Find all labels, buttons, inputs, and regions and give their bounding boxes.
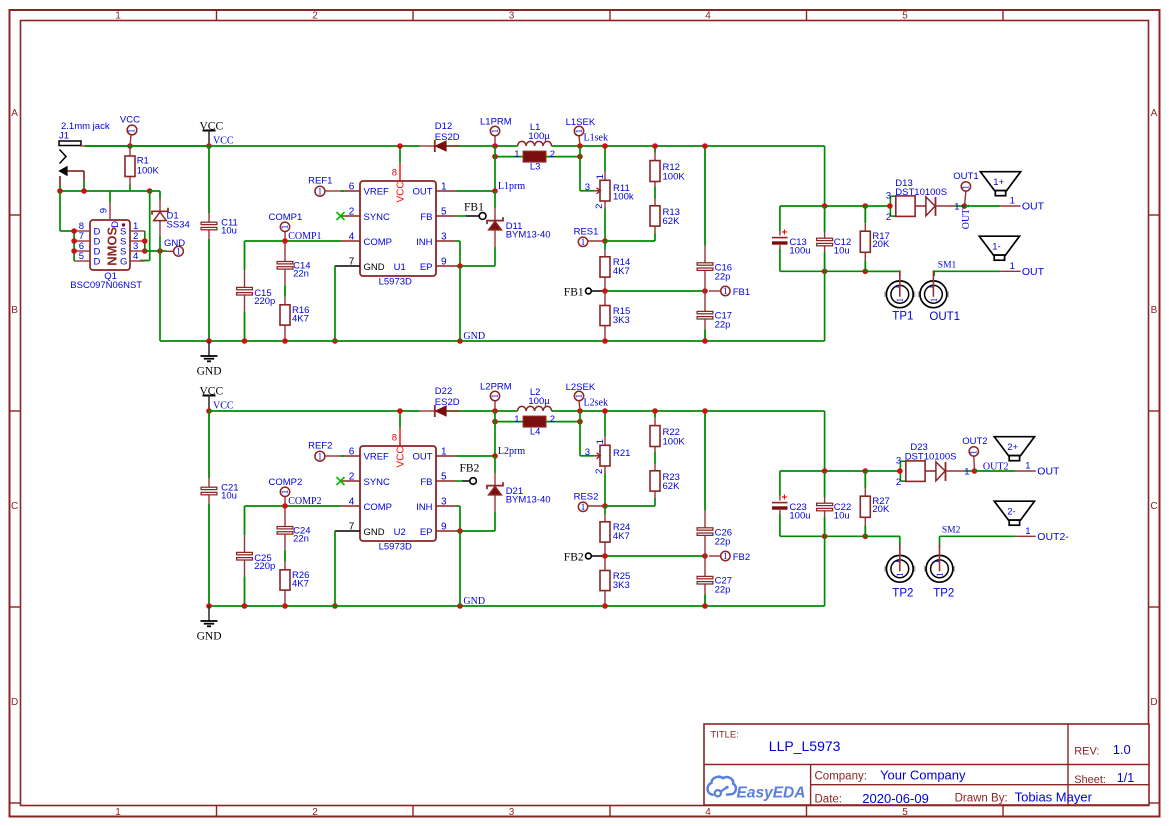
svg-text:22n: 22n [293,533,309,544]
svg-text:4K7: 4K7 [292,314,309,325]
inductor L2 [518,387,552,411]
terminal FB1 row [564,286,605,298]
svg-text:2: 2 [550,414,555,425]
svg-text:B: B [11,305,18,316]
svg-text:OUT1: OUT1 [929,311,960,323]
svg-text:2: 2 [594,469,605,474]
junction [457,338,463,344]
svg-text:1: 1 [595,174,606,179]
wire FB row [605,555,705,557]
svg-text:10u: 10u [834,245,850,256]
svg-text:1: 1 [1010,261,1015,272]
svg-text:100K: 100K [663,437,686,448]
svg-text:1: 1 [127,129,137,134]
wire EP to rail [459,266,461,341]
svg-text:62K: 62K [663,481,681,492]
svg-text:2: 2 [550,149,555,160]
svg-text:FB1: FB1 [564,286,584,298]
svg-text:4: 4 [133,251,138,262]
svg-text:FB: FB [420,212,432,223]
svg-text:1: 1 [964,466,969,477]
svg-text:VCC: VCC [395,446,406,467]
svg-text:5: 5 [79,251,84,262]
wire jack to VCC [85,145,209,147]
svg-text:COMP2: COMP2 [269,477,303,488]
wire [865,205,890,207]
wire GND pin [334,531,336,606]
svg-text:GND: GND [463,331,485,342]
svg-text:U2: U2 [394,527,406,538]
svg-text:220p: 220p [254,296,275,307]
wire VCC rail [209,410,420,412]
junction [602,143,608,149]
svg-text:100k: 100k [613,192,634,203]
svg-text:Drawn By:: Drawn By: [955,793,1008,805]
wire output top row [780,470,865,472]
svg-text:VCC: VCC [120,115,140,126]
capacitor C27 [697,556,732,606]
svg-text:DST10100S: DST10100S [905,452,957,463]
svg-text:1: 1 [490,394,500,399]
svg-text:100µ: 100µ [528,396,550,407]
wire D11 column [494,191,496,208]
resistor R25 [600,556,630,606]
diode D22 ES2D [420,386,460,417]
diode D11 [487,217,551,240]
net flag [709,551,730,561]
svg-text:FB2: FB2 [460,462,480,474]
junction [457,528,463,534]
wire VCC rail [85,145,420,147]
diode D12 ES2D [420,121,460,152]
wire OUT- row [934,270,1000,272]
speaker 1- [979,236,1019,260]
wire to Q1 drain pins [59,191,61,231]
svg-text:+: + [782,492,788,503]
svg-text:1: 1 [723,551,728,561]
svg-text:3: 3 [585,447,590,458]
svg-text:1: 1 [961,185,971,190]
wire GND rail [209,605,825,607]
wire drain rail [73,231,75,261]
svg-text:D: D [1150,697,1157,708]
svg-text:NMOS: NMOS [104,226,119,265]
svg-text:D12: D12 [435,121,452,132]
svg-text:22p: 22p [715,272,731,283]
wire INH [456,505,461,507]
svg-text:3: 3 [886,190,891,201]
svg-text:GND: GND [197,366,222,378]
svg-text:1+: 1+ [993,177,1004,188]
wire C12 to rail [824,536,826,606]
svg-text:FB1: FB1 [464,202,484,214]
net flag COMP1 [269,212,303,241]
junction [602,338,608,344]
svg-text:SYNC: SYNC [364,212,391,223]
svg-text:62K: 62K [663,216,681,227]
wire gate column [149,191,151,261]
terminal FB2 [456,462,480,484]
svg-text:GND: GND [164,238,185,249]
svg-text:INH: INH [416,237,433,248]
capacitor C17 [697,291,732,341]
svg-text:1: 1 [514,414,519,425]
svg-text:FB: FB [420,477,432,488]
junction [492,143,498,149]
svg-text:SYNC: SYNC [364,477,391,488]
svg-text:C: C [1150,501,1157,512]
resistor R24 [600,515,630,557]
svg-text:9: 9 [99,208,110,213]
junction [577,154,583,160]
junction [702,408,708,414]
svg-text:5: 5 [902,807,908,818]
svg-text:1: 1 [581,237,586,247]
capacitor C21 [201,411,238,606]
svg-text:OUT: OUT [412,452,432,463]
net flag L2SEK [566,382,596,411]
svg-text:L1sek: L1sek [584,133,608,144]
wire source pins [144,231,146,251]
junction [702,338,708,344]
svg-text:OUT: OUT [1037,466,1060,478]
junction [206,603,212,609]
wire OUT+ [965,205,1001,207]
svg-text:RES1: RES1 [574,226,599,237]
svg-text:1: 1 [895,572,905,577]
junction [492,188,498,194]
wire OUT [456,190,496,192]
svg-text:22p: 22p [715,537,731,548]
inductor L1 [518,122,552,146]
svg-text:L1PRM: L1PRM [480,117,512,128]
svg-text:GND: GND [364,527,385,538]
svg-text:1: 1 [929,298,939,303]
net flag RES2 [574,491,605,512]
junction [577,408,583,414]
svg-text:3: 3 [509,807,515,818]
svg-text:1: 1 [1025,526,1030,537]
svg-text:TP2: TP2 [892,587,913,599]
inductor L3 [495,149,580,172]
wire output top right corner [824,411,826,471]
inductor L4 [495,414,580,437]
wire after diode [446,145,517,147]
resistor R13 [650,199,680,233]
resistor R26 [280,550,309,606]
svg-text:2-: 2- [1007,507,1015,518]
svg-text:1/1: 1/1 [1117,771,1134,785]
capacitor C16 [697,146,732,291]
svg-text:4K7: 4K7 [292,579,309,590]
svg-text:10u: 10u [221,226,237,237]
capacitor C12 [817,206,852,271]
resistor R12 [650,146,685,187]
net flag REF2 [308,441,344,462]
wire [955,205,965,207]
svg-text:3K3: 3K3 [613,315,630,326]
wire [965,470,975,472]
svg-text:22n: 22n [293,268,309,279]
svg-text:1: 1 [115,11,121,22]
svg-text:10u: 10u [834,510,850,521]
svg-text:FB2: FB2 [564,551,584,563]
svg-text:BYM13-40: BYM13-40 [506,494,551,505]
svg-text:VCC: VCC [395,181,406,202]
svg-text:100u: 100u [789,510,810,521]
svg-text:20K: 20K [872,504,890,515]
junction [897,468,903,474]
svg-text:3: 3 [896,455,901,466]
svg-text:L2SEK: L2SEK [566,382,596,393]
top converter circuit [57,115,1044,378]
svg-text:C: C [11,501,18,512]
svg-text:L2prm: L2prm [498,446,525,457]
net flag [709,286,730,296]
svg-text:INH: INH [416,502,433,513]
svg-text:1: 1 [280,225,290,230]
wire OUT [456,455,496,457]
svg-text:1: 1 [935,572,945,577]
svg-text:2: 2 [896,477,901,488]
wire source row [145,250,167,252]
junction [702,143,708,149]
junction [652,143,658,149]
wire GND rail [160,340,825,342]
svg-text:OUT: OUT [1022,201,1045,213]
resistor R21 trimmer [585,411,631,506]
svg-text:2: 2 [594,204,605,209]
svg-text:100µ: 100µ [528,131,550,142]
junction [282,503,288,509]
net flag L2PRM [480,382,512,411]
junction [492,154,498,160]
wire [654,187,656,200]
svg-text:TP1: TP1 [892,311,913,323]
svg-text:EP: EP [420,527,433,538]
resistor R27 [860,471,890,536]
test point TP1 [884,270,915,322]
junction [962,203,968,209]
svg-text:2: 2 [312,807,318,818]
svg-text:L2sek: L2sek [584,398,608,409]
resistor R14 [600,250,630,292]
svg-text:3: 3 [585,182,590,193]
svg-text:1: 1 [723,286,728,296]
wire inductor right [552,145,825,147]
svg-text:COMP: COMP [364,502,393,513]
svg-text:1: 1 [1010,196,1015,207]
wire output bottom row [780,535,900,537]
svg-text:REV:: REV: [1074,746,1099,758]
svg-text:1: 1 [968,450,978,455]
junction [127,143,133,149]
wire gate row [60,190,150,192]
svg-text:FB2: FB2 [733,552,750,563]
wire COMP row [245,505,341,507]
svg-text:REF2: REF2 [308,441,332,452]
wire [654,452,656,465]
net flag GND [164,238,185,257]
wire OUT- row [940,535,1016,537]
junction [887,203,893,209]
speaker 1+ [980,172,1020,196]
wire [865,470,900,472]
bottom converter circuit [197,382,1070,643]
wire D1 column [150,190,160,192]
net flag REF1 [308,176,344,197]
svg-text:1: 1 [892,560,901,564]
capacitor C22 [817,471,852,536]
wire switch node [494,146,496,191]
svg-text:A: A [1151,108,1158,119]
wire U2 VCC pin [399,411,401,428]
net flag RES1 [574,226,605,247]
svg-text:1: 1 [954,201,959,212]
svg-text:BYM13-40: BYM13-40 [506,229,551,240]
svg-text:A: A [11,108,18,119]
svg-text:OUT: OUT [412,187,432,198]
wire jack tip down [83,171,85,180]
svg-text:1: 1 [895,298,905,303]
svg-text:3K3: 3K3 [613,580,630,591]
svg-text:L3: L3 [530,162,541,173]
wire inductor right [552,410,825,412]
junction [457,263,463,269]
svg-text:1: 1 [318,452,323,462]
svg-text:100u: 100u [789,245,810,256]
wire after diode [446,410,517,412]
svg-text:VREF: VREF [364,452,390,463]
svg-text:COMP1: COMP1 [269,212,303,223]
junction [602,408,608,414]
svg-text:SM2: SM2 [942,526,961,536]
svg-text:22p: 22p [715,584,731,595]
junction [577,419,583,425]
svg-text:4: 4 [705,11,711,22]
wire to test points [865,535,900,537]
svg-text:L5973D: L5973D [379,542,412,553]
junction [602,603,608,609]
svg-text:Tobias Mayer: Tobias Mayer [1015,790,1093,805]
svg-text:FB1: FB1 [733,287,750,298]
svg-text:Your Company: Your Company [880,767,966,782]
svg-text:L4: L4 [530,427,541,438]
svg-text:2020-06-09: 2020-06-09 [862,791,929,806]
net flag COMP2 [269,477,303,506]
wire EP to rail [459,531,461,606]
svg-text:R21: R21 [613,448,630,459]
svg-text:DST10100S: DST10100S [895,187,947,198]
title block [704,724,1149,806]
svg-text:D22: D22 [435,386,452,397]
junction [702,603,708,609]
svg-text:1: 1 [1025,461,1030,472]
svg-text:OUT2-: OUT2- [1037,531,1069,543]
svg-text:G: G [120,256,127,267]
wire [604,241,606,250]
svg-text:LLP_L5973: LLP_L5973 [769,738,841,754]
resistor R11 trimmer [585,146,634,241]
ground symbol [197,341,222,378]
wire EP [456,265,496,267]
junction [57,188,63,194]
svg-text:VREF: VREF [364,187,390,198]
svg-text:VCC: VCC [213,136,234,147]
capacitor C26 [697,411,732,556]
svg-text:2+: 2+ [1007,442,1018,453]
speaker 2+ [994,437,1034,461]
test point OUT1 [918,270,960,323]
wire EP [456,530,496,532]
diode D21 [487,482,551,505]
svg-text:RES2: RES2 [574,491,599,502]
svg-text:10u: 10u [221,491,237,502]
junction [332,338,338,344]
svg-text:OUT2: OUT2 [962,436,987,447]
net flag L1PRM [480,117,512,146]
junction [71,228,77,234]
wire D1 to rail [159,251,161,341]
svg-text:1: 1 [892,285,901,289]
capacitor C23 polarized [772,471,811,536]
svg-text:220p: 220p [254,561,275,572]
svg-text:8: 8 [392,433,397,444]
wire FB row [605,290,705,292]
svg-text:100K: 100K [663,172,686,183]
svg-text:GND: GND [364,262,385,273]
wire sek column [579,146,581,191]
svg-text:8: 8 [392,168,397,179]
svg-text:4: 4 [705,807,711,818]
junction [157,248,163,254]
junction [577,143,583,149]
power flag VCC [200,121,224,147]
svg-text:1: 1 [581,502,586,512]
wire C12 to rail [824,271,826,341]
ground symbol [197,606,222,643]
resistor R1 [125,146,160,187]
wire jack sleeve down [59,176,61,185]
junction [492,453,498,459]
svg-text:SM1: SM1 [938,261,957,271]
junction [602,553,608,559]
svg-text:OUT1: OUT1 [961,204,972,230]
svg-text:GND: GND [463,596,485,607]
svg-text:U1: U1 [394,262,406,273]
wire [654,233,656,241]
capacitor C13 polarized [772,206,811,271]
wire sek column [579,411,581,456]
net flag VCC [120,115,140,146]
test point TP2 [924,545,955,600]
svg-text:SS34: SS34 [167,220,190,231]
svg-text:B: B [1151,305,1158,316]
svg-text:1: 1 [280,490,290,495]
svg-text:COMP: COMP [364,237,393,248]
op-amp U2 L5973D [335,433,456,553]
junction [332,603,338,609]
svg-text:REF1: REF1 [308,176,332,187]
wire [604,506,606,515]
wire U1 VCC pin [399,146,401,163]
no-connect flag SYNC [337,477,345,485]
svg-text:1: 1 [490,129,500,134]
capacitor C14 [277,241,310,285]
capacitor C11 [201,146,238,341]
svg-text:3: 3 [509,11,515,22]
wire R1 to gate [129,187,131,191]
